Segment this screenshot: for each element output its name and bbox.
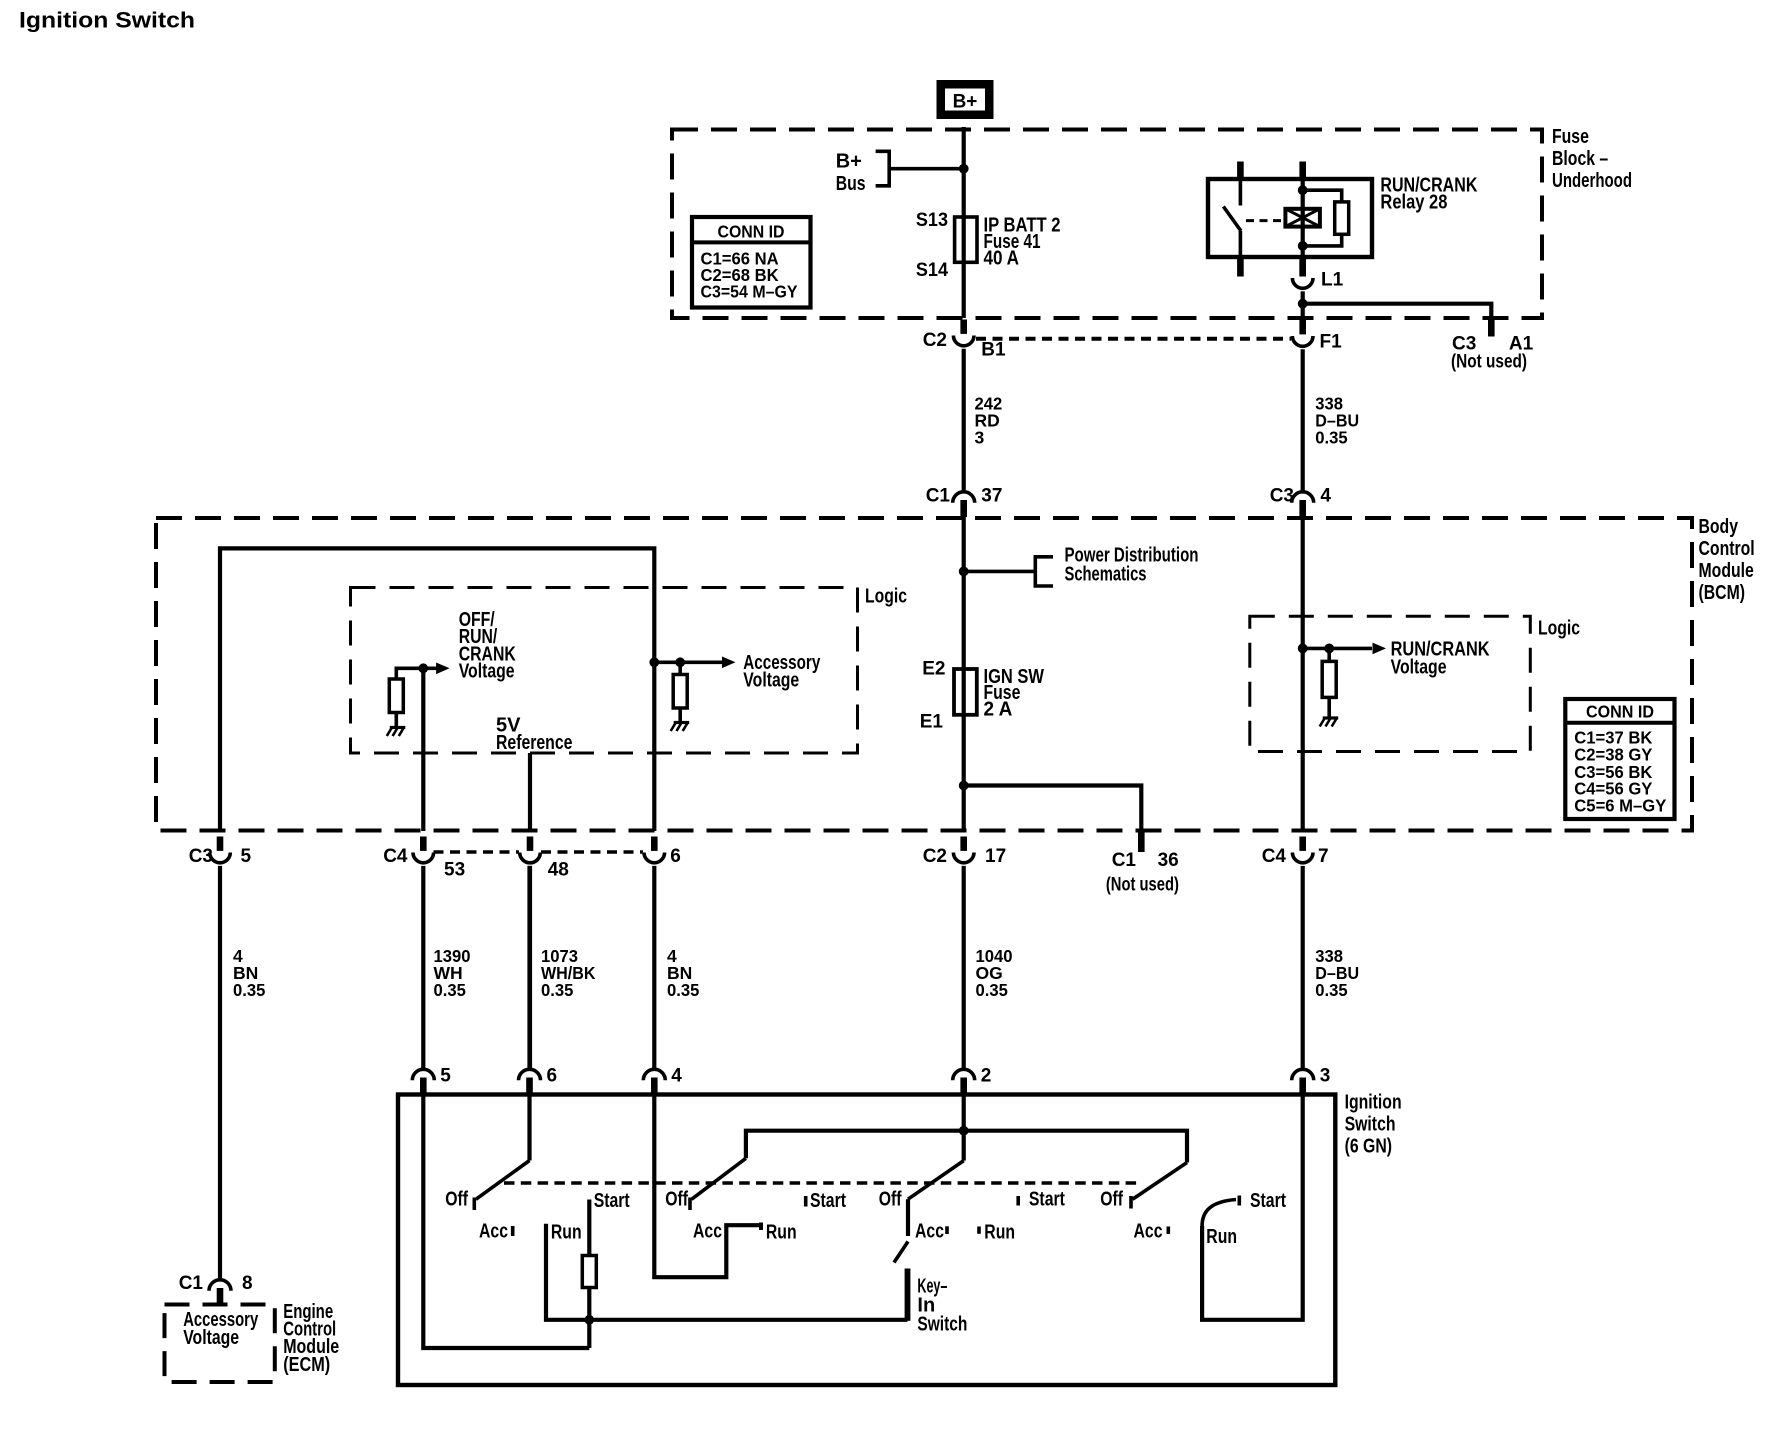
svg-text:0.35: 0.35: [233, 980, 266, 1000]
svg-text:8: 8: [242, 1273, 253, 1294]
svg-text:L1: L1: [1321, 270, 1344, 291]
switch 4 acc tick: [1167, 1227, 1171, 1235]
wire B+ bus: [891, 167, 964, 171]
wire run/crank branch: [1327, 648, 1331, 717]
svg-text:C2: C2: [923, 330, 947, 351]
switch 1 acc tick: [511, 1226, 515, 1236]
wire to C1-36: [964, 786, 1142, 832]
wire pin 6 wiper feed: [527, 1095, 531, 1161]
svg-text:Switch: Switch: [917, 1314, 967, 1336]
svg-text:4: 4: [671, 1066, 682, 1087]
svg-text:5: 5: [440, 1066, 451, 1087]
wire resistor to ground left: [394, 713, 398, 727]
svg-text:CONN ID: CONN ID: [718, 222, 785, 242]
relay coil wire: [1301, 179, 1305, 257]
svg-text:C5=6 M–GY: C5=6 M–GY: [1574, 796, 1666, 816]
relay resistor branch wire: [1303, 190, 1342, 246]
svg-text:Acc: Acc: [915, 1221, 944, 1243]
connector C4 7: [1299, 837, 1306, 851]
key-in switch blade: [894, 1242, 908, 1263]
switch 2 start tick: [804, 1196, 808, 1207]
resistor off/run/crank: [389, 679, 403, 713]
svg-text:2 A: 2 A: [984, 699, 1013, 721]
svg-text:Acc: Acc: [1134, 1221, 1163, 1243]
svg-text:Start: Start: [594, 1190, 630, 1212]
fuse F41 IP BATT 2: [955, 217, 977, 262]
wire accessory arrow: [654, 660, 722, 664]
arrowhead accessory: [722, 657, 736, 669]
wire accessory branch: [678, 662, 682, 721]
wire BCM inner bus: [220, 548, 654, 831]
wire 338 D-BU lower: [1301, 866, 1305, 1069]
switch 3 wiper: [908, 1161, 964, 1200]
svg-text:C4: C4: [383, 846, 408, 867]
connector C4 53: [420, 837, 427, 851]
switch 3 off wire: [906, 1199, 910, 1236]
svg-text:Switch: Switch: [1345, 1114, 1396, 1136]
wire B+ down: [962, 127, 966, 318]
wire run contact: [546, 1224, 908, 1320]
svg-text:6: 6: [547, 1066, 558, 1087]
dashed wiper line: [504, 1181, 1142, 1185]
svg-text:40 A: 40 A: [984, 248, 1020, 270]
svg-text:B+: B+: [836, 151, 862, 173]
connector ignition pin 6: [526, 1078, 533, 1095]
svg-text:6: 6: [670, 846, 681, 867]
svg-text:Start: Start: [1029, 1189, 1065, 1211]
svg-text:Schematics: Schematics: [1065, 564, 1147, 586]
relay resistor: [1335, 202, 1349, 234]
ground run/crank: [1323, 716, 1339, 719]
svg-text:Underhood: Underhood: [1552, 170, 1632, 192]
power dist bracket: [1035, 557, 1053, 586]
key-in switch stub: [905, 1269, 911, 1321]
engine control module box: [165, 1305, 275, 1383]
switch 2 run tick: [759, 1223, 763, 1231]
switch 1 off tick: [472, 1198, 476, 1211]
svg-text:(BCM): (BCM): [1699, 582, 1746, 604]
connector 6: [651, 837, 658, 851]
svg-text:Voltage: Voltage: [743, 670, 799, 692]
svg-text:7: 7: [1318, 846, 1329, 867]
wire pin6 upper: [527, 866, 531, 1069]
svg-text:Off: Off: [665, 1189, 688, 1211]
svg-text:Relay 28: Relay 28: [1380, 192, 1447, 214]
wire run/crank arrow: [1303, 647, 1372, 651]
svg-text:0.35: 0.35: [976, 980, 1009, 1000]
svg-text:(Not used): (Not used): [1451, 352, 1527, 373]
wire off/run/crank to 53: [421, 668, 425, 831]
connector C2 B1: [960, 320, 967, 334]
junction dot accessory branch: [675, 657, 685, 667]
switch 2 off tick: [688, 1198, 692, 1211]
connector C1 8: [217, 1288, 224, 1305]
wire ignition bus: [746, 1131, 1187, 1163]
connector ignition pin 3: [1299, 1078, 1306, 1095]
svg-text:C1: C1: [1112, 850, 1137, 871]
battery terminal B+: [937, 80, 994, 119]
wire C1-37 down: [962, 516, 966, 831]
svg-text:(6 GN): (6 GN): [1345, 1136, 1392, 1158]
fuse block - underhood box: [672, 130, 1542, 319]
connector ignition pin 5: [420, 1078, 427, 1095]
svg-text:Off: Off: [879, 1189, 902, 1211]
connector ignition pin 4: [651, 1078, 658, 1095]
svg-text:48: 48: [548, 860, 569, 881]
switch 3 start tick: [1016, 1196, 1020, 1206]
dotted link C2-F1: [976, 337, 1291, 341]
junction dot relay bottom: [1298, 241, 1308, 251]
dotted link 53-48: [434, 850, 520, 854]
svg-text:3: 3: [975, 428, 985, 448]
svg-text:C3=54 M–GY: C3=54 M–GY: [701, 282, 798, 302]
svg-text:0.35: 0.35: [1315, 980, 1348, 1000]
svg-text:Acc: Acc: [693, 1221, 722, 1243]
svg-text:2: 2: [981, 1066, 992, 1087]
svg-text:B1: B1: [981, 340, 1006, 361]
connector C2 17: [960, 837, 967, 851]
logic box left: [351, 588, 858, 754]
svg-text:(ECM): (ECM): [283, 1354, 330, 1376]
svg-text:S14: S14: [916, 260, 949, 281]
svg-text:Voltage: Voltage: [183, 1327, 239, 1349]
svg-text:Acc: Acc: [479, 1221, 508, 1243]
connector C3 4: [1299, 500, 1306, 517]
switch 4 start tick: [1238, 1196, 1242, 1206]
svg-text:C2: C2: [923, 846, 947, 867]
svg-text:C3: C3: [1270, 486, 1294, 507]
svg-text:C1: C1: [179, 1273, 204, 1294]
wire pin 3 to run: [1202, 1095, 1303, 1320]
arrowhead off/run/crank: [436, 663, 450, 675]
svg-text:F1: F1: [1320, 332, 1343, 353]
svg-text:4: 4: [1320, 486, 1331, 507]
svg-text:Fuse: Fuse: [1552, 126, 1589, 148]
connector ignition pin 2: [960, 1078, 967, 1095]
svg-text:B+: B+: [953, 92, 978, 113]
wire L1 down: [1301, 291, 1305, 317]
svg-text:C4: C4: [1262, 846, 1287, 867]
junction dot start-run: [584, 1315, 594, 1325]
ignition switch box: [398, 1095, 1335, 1386]
svg-text:Control: Control: [1699, 538, 1755, 560]
switch 2 wiper: [692, 1158, 746, 1199]
wire pin 4 to acc-run bridge: [654, 1095, 760, 1278]
svg-text:Start: Start: [1250, 1190, 1286, 1212]
relay pin stubs: [1237, 162, 1244, 180]
svg-text:Start: Start: [810, 1190, 846, 1212]
svg-text:Off: Off: [1100, 1189, 1123, 1211]
switch 3 acc tick: [945, 1226, 949, 1234]
svg-text:5: 5: [241, 846, 252, 867]
svg-text:CONN ID: CONN ID: [1586, 702, 1654, 722]
connector L1: [1299, 262, 1306, 276]
dotted link 48-6: [541, 850, 643, 854]
svg-text:(Not used): (Not used): [1106, 875, 1179, 896]
svg-text:37: 37: [981, 486, 1002, 507]
svg-text:Voltage: Voltage: [459, 661, 515, 683]
resistor run/crank: [1322, 661, 1336, 697]
wire 242 RD 3: [962, 349, 966, 491]
connector C1 37: [960, 500, 967, 517]
ground off/run/crank: [390, 726, 406, 729]
wire 4 BN mid: [652, 866, 656, 1069]
switch 4 off tick: [1129, 1196, 1133, 1209]
relay coil: [1285, 209, 1320, 227]
svg-text:0.35: 0.35: [1315, 428, 1348, 448]
wire start contact: [587, 1200, 591, 1349]
wire off/run/crank arrow: [396, 668, 436, 679]
svg-text:E1: E1: [920, 712, 944, 733]
switch 3 run tick: [977, 1227, 981, 1234]
resistor start: [582, 1256, 596, 1288]
pin C1-36 stub (not used): [1138, 831, 1145, 852]
svg-text:36: 36: [1158, 850, 1179, 871]
wire pin 5 down: [423, 1095, 589, 1349]
CONN ID table (BCM): [1565, 699, 1674, 819]
svg-text:Module: Module: [1699, 560, 1754, 582]
svg-text:0.35: 0.35: [667, 980, 700, 1000]
resistor accessory: [673, 675, 687, 709]
svg-text:Body: Body: [1699, 516, 1739, 538]
wire C3-4 down: [1301, 516, 1305, 831]
ground accessory: [674, 721, 690, 724]
wire 1040 OG: [962, 866, 966, 1069]
connector 48: [527, 837, 534, 851]
svg-text:Block –: Block –: [1552, 148, 1608, 170]
svg-text:Ignition: Ignition: [1345, 1092, 1402, 1114]
connector F1: [1299, 320, 1306, 334]
connector C3 5: [217, 837, 224, 851]
svg-text:C3: C3: [189, 846, 213, 867]
B+ bus tap bracket: [876, 151, 890, 186]
svg-text:53: 53: [444, 860, 465, 881]
svg-text:Logic: Logic: [865, 586, 907, 608]
junction dot relay top: [1298, 185, 1308, 195]
wire power dist tap: [964, 570, 1036, 574]
svg-text:17: 17: [985, 846, 1006, 867]
relay switch contact: [1223, 179, 1241, 257]
junction dot L1: [1298, 299, 1308, 309]
svg-text:0.35: 0.35: [541, 980, 574, 1000]
svg-text:Bus: Bus: [836, 173, 866, 195]
arrowhead run/crank: [1373, 643, 1387, 655]
junction dot off/run/crank: [418, 663, 428, 673]
wire pin 2 down: [962, 1095, 966, 1161]
CONN ID table (fuse block): [692, 217, 811, 308]
junction dot B+ bus: [959, 164, 969, 174]
junction dot run/crank main: [1298, 644, 1308, 654]
svg-text:Reference: Reference: [496, 732, 572, 754]
svg-text:3: 3: [1320, 1066, 1331, 1087]
svg-text:Off: Off: [445, 1189, 468, 1211]
svg-text:Logic: Logic: [1538, 618, 1580, 640]
relay RUN/CRANK Relay 28 box: [1208, 179, 1372, 257]
logic box right: [1250, 616, 1531, 751]
svg-text:C1: C1: [926, 486, 951, 507]
svg-text:0.35: 0.35: [434, 980, 467, 1000]
junction dot power dist: [959, 567, 969, 577]
wire 1390 WH: [421, 866, 425, 1069]
wire 1073 WH/BK: [528, 866, 532, 1069]
svg-text:E2: E2: [922, 659, 945, 680]
switch 4 run-start curve: [1202, 1200, 1236, 1227]
junction dot accessory main: [649, 657, 659, 667]
svg-text:Run: Run: [984, 1222, 1015, 1244]
pin A1 stub (not used): [1488, 319, 1495, 337]
wire to A1: [1303, 304, 1492, 320]
svg-text:Run: Run: [551, 1222, 582, 1244]
wire 4 BN to ECM: [218, 866, 222, 1279]
svg-text:Run: Run: [766, 1222, 797, 1244]
wire 5V reference: [528, 753, 532, 831]
relay link dashed: [1246, 219, 1285, 222]
junction dot ignition bus: [959, 1126, 969, 1136]
junction dot C1-36 tap: [959, 781, 969, 791]
wire 338 D-BU upper: [1301, 349, 1305, 491]
svg-text:Voltage: Voltage: [1391, 657, 1447, 679]
svg-text:S13: S13: [916, 210, 948, 231]
fuse IGN SW: [954, 669, 977, 715]
switch 4 wiper: [1133, 1163, 1188, 1200]
switch 1 wiper: [476, 1161, 530, 1200]
junction dot run/crank branch: [1324, 644, 1334, 654]
body control module box: [156, 518, 1692, 831]
svg-text:Ignition Switch: Ignition Switch: [19, 8, 195, 33]
svg-text:Run: Run: [1206, 1226, 1237, 1248]
